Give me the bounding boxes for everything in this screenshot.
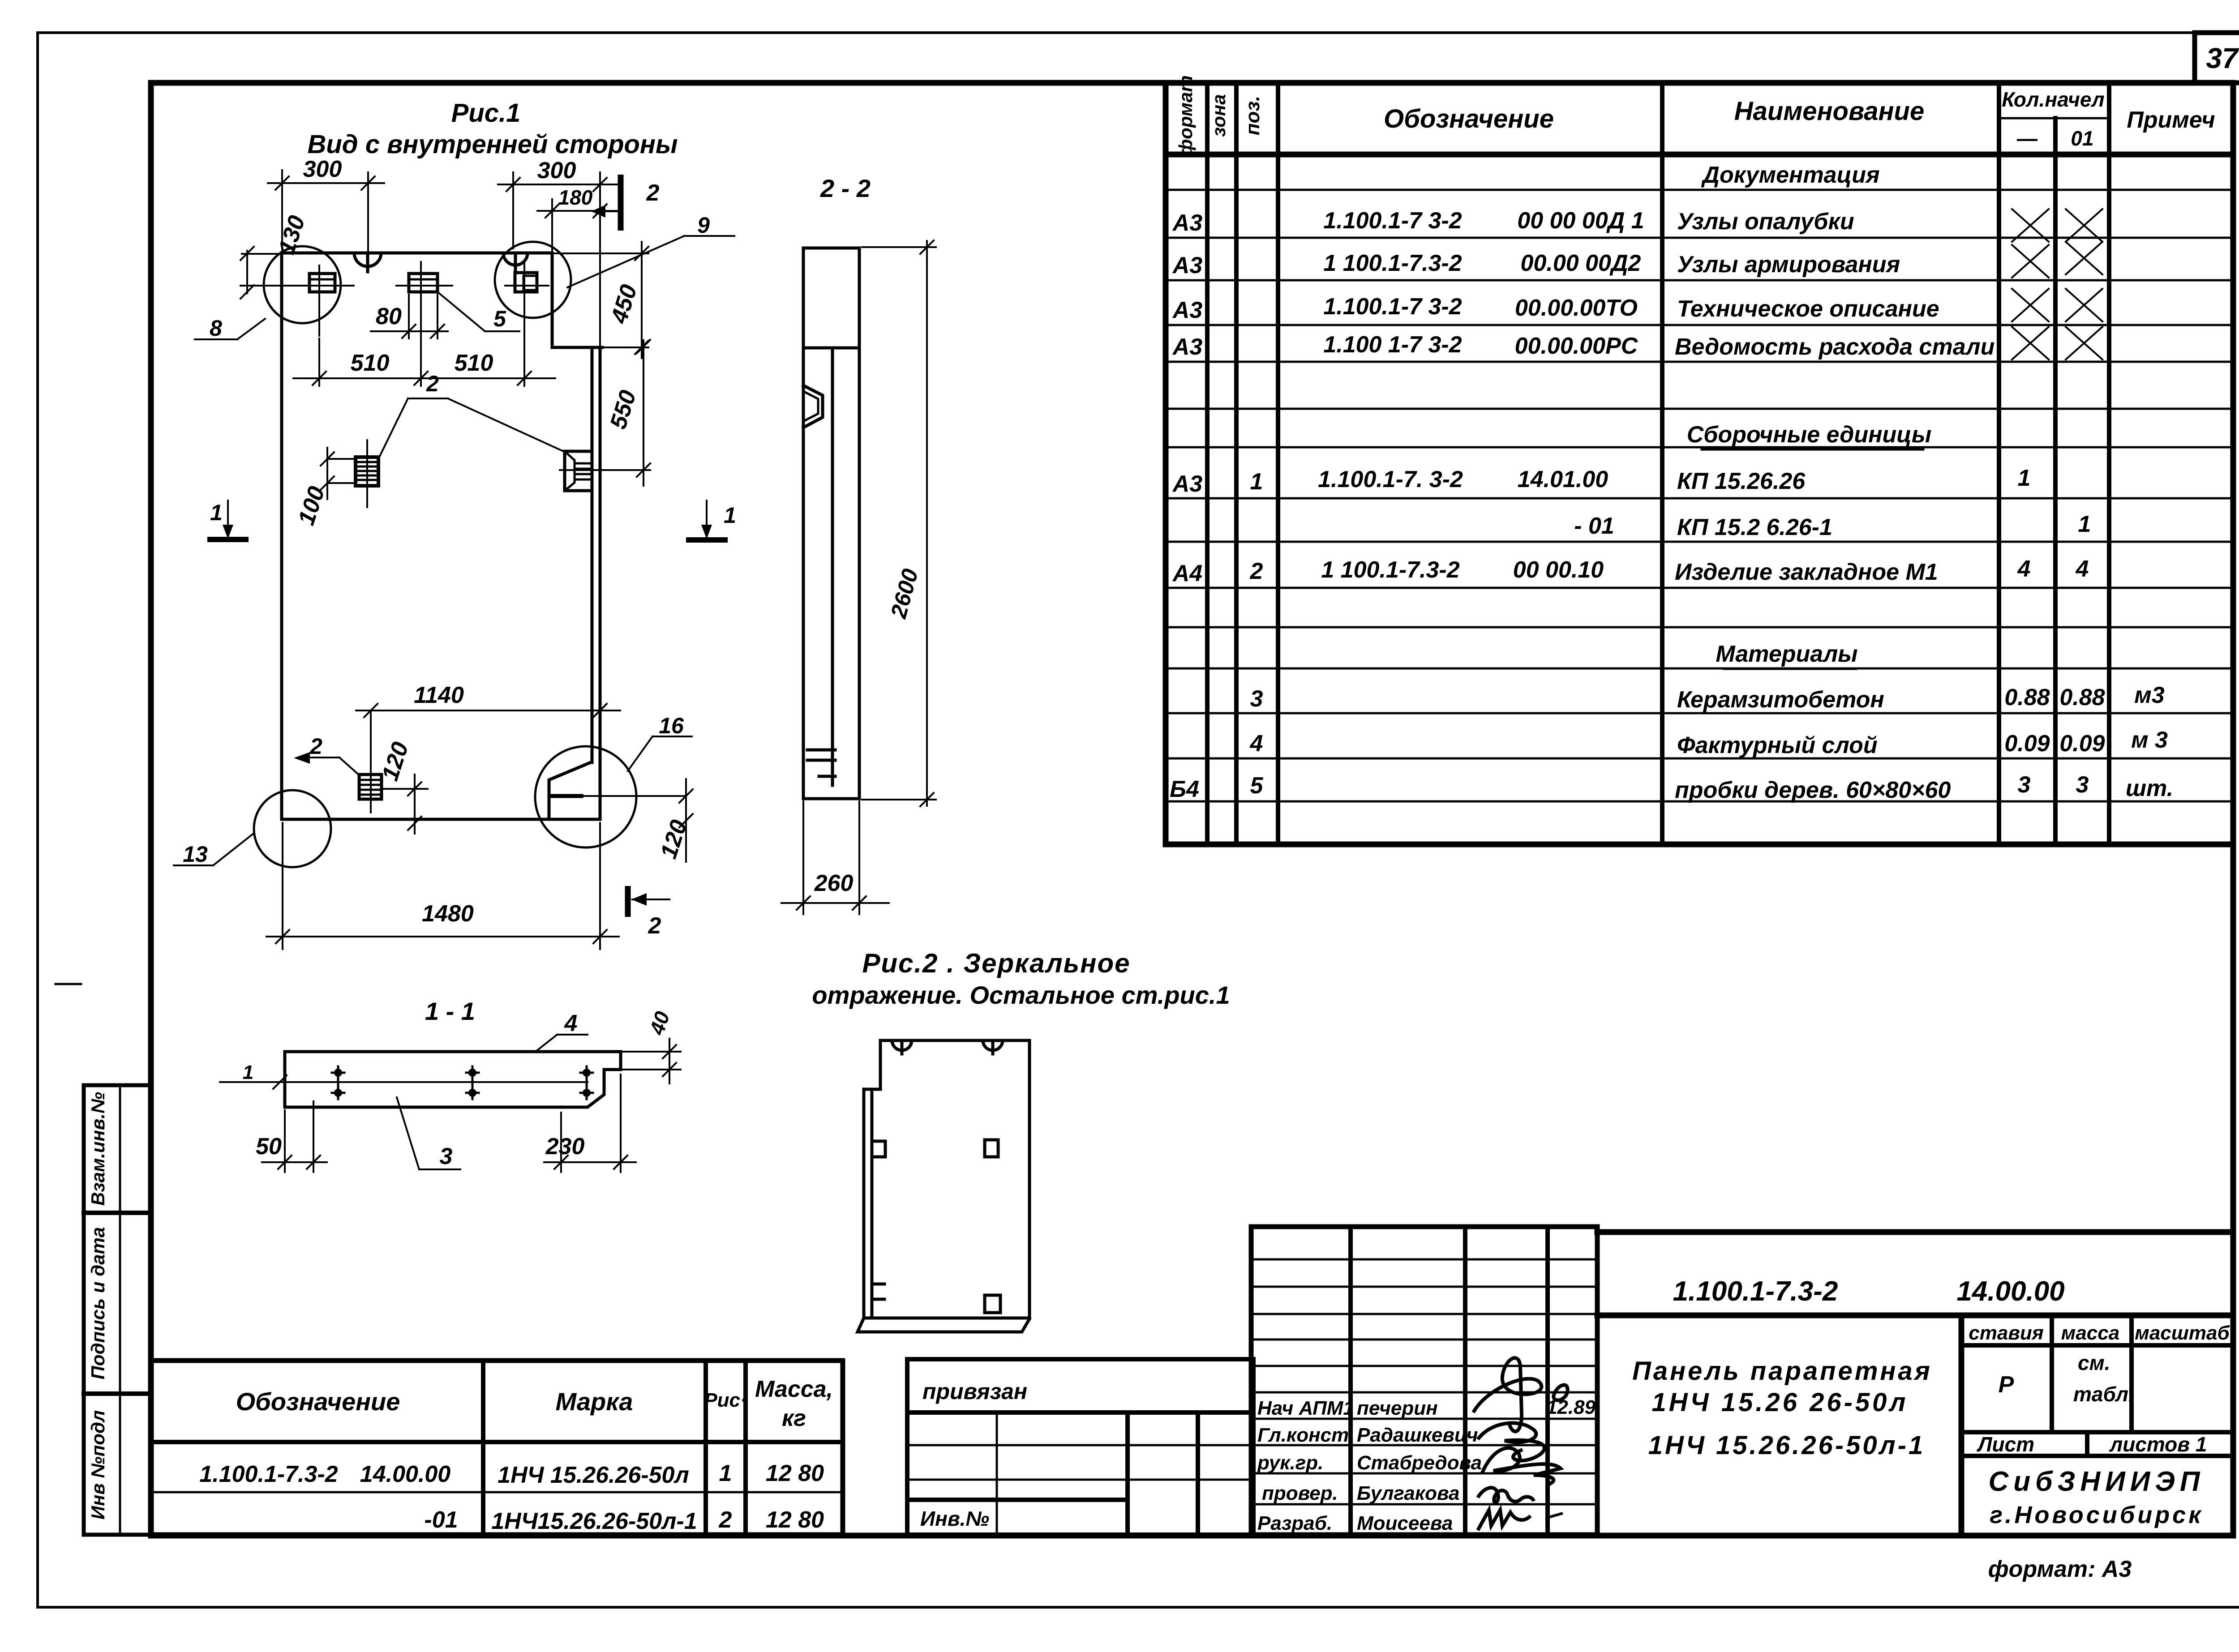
svg-text:привязан: привязан bbox=[922, 1379, 1027, 1404]
signatures scribble bbox=[1473, 1358, 1568, 1530]
svg-text:табл.: табл. bbox=[2073, 1382, 2134, 1406]
detail circle right bbox=[495, 242, 571, 318]
svg-text:4: 4 bbox=[2017, 556, 2031, 582]
row Фактурный слой bbox=[1250, 727, 2168, 758]
svg-text:1: 1 bbox=[2078, 511, 2091, 537]
dim 1140 bbox=[356, 682, 620, 757]
svg-text:00.00.00ТО: 00.00.00ТО bbox=[1515, 295, 1638, 321]
row КП 15.26.26 bbox=[1172, 465, 2031, 497]
svg-text:14.00.00: 14.00.00 bbox=[1956, 1276, 2064, 1307]
sheet number box 37 bbox=[2195, 33, 2239, 83]
title name area divider bbox=[1959, 1315, 1964, 1535]
svg-text:3: 3 bbox=[440, 1143, 453, 1169]
svg-text:1: 1 bbox=[243, 1061, 253, 1083]
svg-text:Рис.2 . Зеркальное: Рис.2 . Зеркальное bbox=[862, 948, 1130, 978]
Рис.2 panel outline bbox=[858, 1040, 1029, 1332]
svg-text:14.00.00: 14.00.00 bbox=[360, 1461, 450, 1487]
dim 50 bbox=[256, 1101, 327, 1172]
dim 550 bbox=[560, 340, 650, 486]
svg-text:Радашкевич: Радашкевич bbox=[1357, 1424, 1478, 1446]
plug top-middle (item 5) bbox=[396, 262, 452, 317]
svg-text:Б4: Б4 bbox=[1170, 776, 1199, 802]
dim 120 left bbox=[377, 739, 428, 834]
title block divider bbox=[1597, 1313, 2233, 1318]
svg-text:формат: формат bbox=[1175, 75, 1196, 156]
rebar 1 bbox=[332, 1066, 344, 1099]
svg-text:1.100.1-7 3-2: 1.100.1-7 3-2 bbox=[1323, 208, 1462, 234]
svg-text:5: 5 bbox=[493, 306, 506, 331]
svg-text:1.100.1-7.3-2: 1.100.1-7.3-2 bbox=[1673, 1276, 1838, 1307]
svg-text:1 100.1-7.3-2: 1 100.1-7.3-2 bbox=[1323, 250, 1462, 276]
2-2 bottom plug bbox=[807, 750, 835, 776]
section mark 2 bottom bbox=[628, 886, 669, 939]
svg-text:1: 1 bbox=[210, 500, 223, 525]
svg-text:Масса,: Масса, bbox=[755, 1376, 833, 1402]
label 2 top plugs bbox=[379, 371, 563, 457]
lifting notch left bbox=[354, 253, 381, 266]
title block top line bbox=[1597, 1229, 2233, 1235]
svg-text:50: 50 bbox=[256, 1134, 282, 1160]
svg-text:2: 2 bbox=[646, 180, 660, 206]
svg-text:1: 1 bbox=[724, 503, 736, 528]
svg-text:1НЧ 15.26.26-50л: 1НЧ 15.26.26-50л bbox=[498, 1462, 689, 1488]
svg-text:масса: масса bbox=[2061, 1322, 2119, 1344]
svg-text:4: 4 bbox=[564, 1010, 578, 1036]
plug top-left (item 8) bbox=[260, 265, 354, 336]
Рис.2 plug square bottom bbox=[985, 1295, 1000, 1313]
svg-text:12 80: 12 80 bbox=[766, 1507, 824, 1533]
привязан block grid bbox=[907, 1359, 1253, 1535]
svg-text:отражение. Остальное ст.рис.1: отражение. Остальное ст.рис.1 bbox=[812, 981, 1230, 1009]
rebar 3 bbox=[580, 1066, 593, 1099]
svg-text:Моисеева: Моисеева bbox=[1357, 1512, 1453, 1534]
svg-text:Кол.начел: Кол.начел bbox=[2002, 88, 2104, 111]
svg-text:поз.: поз. bbox=[1242, 96, 1264, 135]
svg-text:13: 13 bbox=[183, 842, 208, 867]
svg-text:1140: 1140 bbox=[414, 682, 464, 708]
Рис.2 corner notch bottom-left bbox=[872, 1284, 884, 1299]
svg-text:2 - 2: 2 - 2 bbox=[820, 174, 871, 202]
svg-text:80: 80 bbox=[376, 304, 402, 330]
svg-text:300: 300 bbox=[303, 156, 342, 182]
svg-text:Марка: Марка bbox=[556, 1387, 633, 1416]
svg-text:1НЧ15.26.26-50л-1: 1НЧ15.26.26-50л-1 bbox=[491, 1508, 697, 1534]
svg-text:1 - 1: 1 - 1 bbox=[425, 997, 475, 1025]
dim 1480 bbox=[266, 823, 619, 949]
dim 80 bbox=[371, 295, 448, 338]
fold mark left margin bbox=[56, 983, 81, 985]
svg-text:Техническое описание: Техническое описание bbox=[1677, 296, 1939, 322]
svg-text:ставия: ставия bbox=[1969, 1322, 2044, 1344]
svg-text:Нач АПМ1: Нач АПМ1 bbox=[1257, 1397, 1354, 1419]
svg-text:2: 2 bbox=[309, 734, 322, 759]
embed plate left (item 2) bbox=[356, 440, 378, 507]
svg-text:1: 1 bbox=[2018, 465, 2031, 491]
label 4 bbox=[536, 1010, 588, 1052]
svg-text:листов 1: листов 1 bbox=[2109, 1433, 2207, 1456]
svg-text:г.Новосибирск: г.Новосибирск bbox=[1990, 1502, 2203, 1528]
label 5 bbox=[438, 292, 519, 331]
svg-text:Ведомость расхода стали: Ведомость расхода стали bbox=[1675, 334, 1995, 360]
название Панель парапетная bbox=[1632, 1357, 1932, 1460]
svg-text:0.09: 0.09 bbox=[2059, 731, 2105, 757]
svg-text:А4: А4 bbox=[1172, 561, 1203, 586]
svg-text:Наименование: Наименование bbox=[1734, 97, 1924, 126]
svg-text:00 00.10: 00 00.10 bbox=[1513, 557, 1604, 583]
svg-text:1 100.1-7.3-2: 1 100.1-7.3-2 bbox=[1321, 557, 1459, 583]
Лист row bbox=[1961, 1432, 2233, 1456]
svg-text:м 3: м 3 bbox=[2131, 727, 2168, 753]
dim 40 bbox=[622, 1008, 681, 1083]
1-1 section outline bbox=[285, 1052, 621, 1107]
dim 100 bbox=[293, 448, 356, 528]
svg-text:510: 510 bbox=[455, 350, 493, 376]
detail circle 16 bbox=[535, 746, 636, 847]
svg-text:см.: см. bbox=[2078, 1351, 2110, 1374]
panel Рис.1 outline bbox=[282, 253, 602, 819]
row Изделие закладное М1 bbox=[1172, 556, 2089, 586]
section title Сборочные единицы bbox=[1687, 422, 1932, 449]
svg-text:-01: -01 bbox=[424, 1507, 458, 1533]
row КП 15.26.26-1 bbox=[1574, 511, 2091, 540]
svg-text:А3: А3 bbox=[1172, 253, 1203, 278]
организация СибЗНИИЭП bbox=[1989, 1466, 2205, 1528]
svg-text:печерин: печерин bbox=[1357, 1397, 1438, 1419]
left margin label strip bbox=[84, 1085, 151, 1535]
svg-text:2: 2 bbox=[648, 913, 661, 939]
Рис.2 plug left edge bbox=[872, 1141, 885, 1157]
corner detail flap bbox=[549, 762, 686, 818]
2-2 embed flange bbox=[803, 385, 823, 428]
svg-text:Сборочные единицы: Сборочные единицы bbox=[1687, 422, 1932, 448]
svg-text:Булгакова: Булгакова bbox=[1357, 1482, 1459, 1504]
dim 450 bbox=[552, 242, 648, 358]
svg-text:Фактурный слой: Фактурный слой bbox=[1677, 732, 1878, 758]
svg-text:масштаб: масштаб bbox=[2135, 1322, 2230, 1344]
dim 300 left bbox=[268, 156, 384, 253]
svg-text:Обозначение: Обозначение bbox=[1384, 104, 1554, 133]
row doc3 Техническое описание bbox=[1172, 289, 2102, 323]
svg-text:1480: 1480 bbox=[422, 901, 474, 927]
svg-text:А3: А3 bbox=[1172, 210, 1203, 236]
label 9 bbox=[567, 213, 734, 287]
svg-text:14.01.00: 14.01.00 bbox=[1518, 466, 1608, 492]
row doc4 Ведомость расхода стали bbox=[1172, 327, 2102, 360]
signature row Нач АПМ1 bbox=[1257, 1396, 1596, 1419]
specification table grid bbox=[1166, 83, 2233, 844]
svg-text:Узлы опалубки: Узлы опалубки bbox=[1677, 209, 1854, 235]
dim 120 right bbox=[656, 779, 693, 862]
embed plate right (item 2) bbox=[565, 451, 592, 491]
svg-text:пробки дерев. 60×80×60: пробки дерев. 60×80×60 bbox=[1675, 777, 1951, 803]
svg-text:1.100 1-7 3-2: 1.100 1-7 3-2 bbox=[1323, 332, 1462, 358]
dim 180 bbox=[537, 172, 617, 347]
signature row провер. bbox=[1262, 1482, 1459, 1504]
label 13 bbox=[174, 833, 254, 867]
signature row Разраб. bbox=[1257, 1512, 1453, 1534]
svg-text:9: 9 bbox=[697, 213, 710, 238]
svg-text:2: 2 bbox=[1250, 558, 1263, 584]
section mark 2 top bbox=[591, 175, 660, 231]
label 16 bbox=[628, 713, 692, 771]
svg-text:16: 16 bbox=[659, 713, 684, 738]
svg-text:Рис.1: Рис.1 bbox=[451, 98, 521, 128]
svg-text:1: 1 bbox=[1250, 469, 1263, 495]
svg-text:Инв №подл: Инв №подл bbox=[87, 1410, 108, 1519]
svg-text:Узлы армирования: Узлы армирования bbox=[1677, 252, 1900, 278]
svg-text:зона: зона bbox=[1208, 94, 1229, 137]
svg-text:1: 1 bbox=[719, 1460, 732, 1486]
svg-text:1НЧ 15.26.26-50л-1: 1НЧ 15.26.26-50л-1 bbox=[1648, 1431, 1926, 1460]
plug bottom-middle (item 2) bbox=[359, 757, 382, 813]
svg-text:КП 15.26.26: КП 15.26.26 bbox=[1677, 468, 1806, 494]
svg-text:00 00 00Д 1: 00 00 00Д 1 bbox=[1517, 208, 1644, 234]
svg-text:260: 260 bbox=[814, 870, 854, 896]
dim 300 right bbox=[498, 158, 617, 248]
svg-text:Обозначение: Обозначение bbox=[236, 1387, 400, 1416]
svg-text:1НЧ 15.26 26-50л: 1НЧ 15.26 26-50л bbox=[1652, 1388, 1909, 1417]
svg-text:шт.: шт. bbox=[2126, 775, 2173, 801]
svg-text:Инв.№: Инв.№ bbox=[920, 1507, 989, 1530]
svg-text:12 80: 12 80 bbox=[766, 1460, 824, 1486]
svg-text:Стабредова: Стабредова bbox=[1357, 1452, 1482, 1474]
Рис.2 notch right bbox=[983, 1040, 1003, 1050]
svg-text:300: 300 bbox=[537, 158, 576, 184]
bottom-left marks table grid bbox=[151, 1361, 843, 1535]
svg-text:4: 4 bbox=[1250, 731, 1263, 757]
svg-text:КП 15.2 6.26-1: КП 15.2 6.26-1 bbox=[1677, 514, 1832, 540]
svg-text:Р: Р bbox=[1999, 1372, 2014, 1398]
svg-text:3: 3 bbox=[2076, 772, 2089, 798]
svg-text:0.88: 0.88 bbox=[2004, 685, 2050, 710]
svg-text:Лист: Лист bbox=[1977, 1433, 2034, 1456]
svg-text:510: 510 bbox=[351, 350, 390, 376]
svg-text:180: 180 bbox=[558, 186, 593, 209]
svg-text:37: 37 bbox=[2206, 42, 2239, 74]
detail circle 8 bbox=[264, 246, 341, 323]
svg-text:1.100.1-7.3-2: 1.100.1-7.3-2 bbox=[199, 1461, 338, 1487]
row doc1 Узлы опалубки bbox=[1172, 208, 2102, 242]
стадия масса масштаб grid bbox=[1961, 1315, 2233, 1432]
row Керамзитобетон bbox=[1250, 682, 2165, 713]
svg-text:Разраб.: Разраб. bbox=[1257, 1512, 1332, 1534]
plug top-right bbox=[505, 263, 549, 318]
svg-text:01: 01 bbox=[2071, 127, 2093, 150]
2-2 section outline bbox=[803, 248, 859, 799]
lifting notch right bbox=[503, 253, 528, 265]
svg-text:2: 2 bbox=[426, 371, 439, 396]
svg-text:230: 230 bbox=[545, 1134, 585, 1160]
svg-text:3: 3 bbox=[2018, 772, 2031, 798]
row doc2 Узлы армирования bbox=[1172, 242, 2102, 278]
svg-text:Панель парапетная: Панель парапетная bbox=[1632, 1357, 1932, 1386]
svg-text:СибЗНИИЭП: СибЗНИИЭП bbox=[1989, 1466, 2205, 1497]
marks row 1 bbox=[199, 1460, 824, 1488]
svg-text:А3: А3 bbox=[1172, 471, 1203, 497]
dim 510 510 bbox=[293, 319, 555, 386]
svg-text:Взам.инв.№: Взам.инв.№ bbox=[87, 1092, 108, 1206]
svg-text:0.88: 0.88 bbox=[2059, 685, 2105, 710]
label 3 bbox=[397, 1097, 460, 1169]
section mark 1 left bbox=[207, 500, 249, 539]
signature row рук.гр. bbox=[1257, 1452, 1482, 1474]
svg-text:формат: А3: формат: А3 bbox=[1988, 1556, 2132, 1582]
svg-text:0.09: 0.09 bbox=[2004, 731, 2050, 757]
svg-text:рук.гр.: рук.гр. bbox=[1257, 1452, 1323, 1474]
Рис.2 plug square top bbox=[985, 1140, 998, 1157]
svg-text:1.100.1-7. 3-2: 1.100.1-7. 3-2 bbox=[1318, 466, 1463, 492]
row пробки дерев bbox=[1170, 772, 2173, 803]
svg-text:Подпись и дата: Подпись и дата bbox=[87, 1227, 108, 1379]
svg-text:м3: м3 bbox=[2134, 682, 2164, 708]
svg-text:Гл.конст: Гл.конст bbox=[1257, 1424, 1349, 1446]
section mark 1 right bbox=[686, 501, 736, 540]
svg-text:—: — bbox=[2016, 127, 2038, 150]
dim 230 bbox=[544, 1074, 636, 1172]
svg-text:Рис·: Рис· bbox=[704, 1389, 746, 1411]
svg-text:2: 2 bbox=[719, 1507, 732, 1533]
svg-text:00.00.00РС: 00.00.00РС bbox=[1515, 333, 1639, 359]
svg-text:Керамзитобетон: Керамзитобетон bbox=[1677, 687, 1884, 713]
svg-text:А3: А3 bbox=[1172, 334, 1203, 360]
signature block grid bbox=[1251, 1227, 1597, 1535]
section title Материалы bbox=[1716, 641, 1857, 669]
svg-text:3: 3 bbox=[1250, 686, 1263, 712]
svg-text:А3: А3 bbox=[1172, 297, 1203, 323]
signature row Гл.конст bbox=[1257, 1424, 1478, 1446]
section title Документация bbox=[1701, 162, 1879, 190]
svg-text:4: 4 bbox=[2076, 556, 2089, 582]
svg-text:Вид с внутренней стороны: Вид с внутренней стороны bbox=[307, 130, 678, 159]
svg-text:Примеч: Примеч bbox=[2127, 107, 2215, 133]
dim 130 bbox=[240, 212, 310, 299]
marks row 2 bbox=[424, 1507, 824, 1534]
detail circle 13 bbox=[254, 790, 331, 867]
label 8 bbox=[195, 316, 265, 341]
svg-text:кг: кг bbox=[782, 1405, 806, 1431]
dim 260 bbox=[781, 801, 889, 914]
svg-text:Материалы: Материалы bbox=[1716, 641, 1857, 667]
svg-text:провер.: провер. bbox=[1262, 1482, 1338, 1504]
svg-text:Изделие закладное М1: Изделие закладное М1 bbox=[1675, 559, 1938, 585]
svg-text:00.00 00Д2: 00.00 00Д2 bbox=[1521, 250, 1641, 276]
label 2 bottom plug bbox=[294, 734, 360, 776]
svg-text:- 01: - 01 bbox=[1574, 513, 1614, 539]
dim 2600 bbox=[862, 240, 936, 806]
svg-text:Документация: Документация bbox=[1701, 162, 1879, 188]
svg-text:8: 8 bbox=[210, 316, 222, 341]
svg-text:1.100.1-7 3-2: 1.100.1-7 3-2 bbox=[1323, 294, 1462, 320]
1-1 axis line bbox=[220, 1081, 588, 1083]
rebar 2 bbox=[466, 1066, 479, 1099]
Рис.2 notch left bbox=[892, 1040, 912, 1050]
svg-text:5: 5 bbox=[1250, 773, 1264, 799]
